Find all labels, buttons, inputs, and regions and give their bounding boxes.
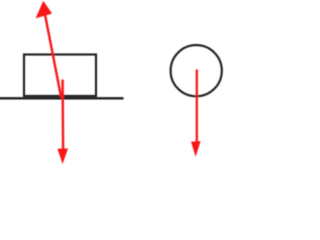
ball (circle)	[171, 45, 222, 96]
weight arrow on block (down)	[57, 80, 68, 165]
weight arrow on ball (down)	[191, 70, 201, 157]
up force arrow on block: shaft	[36, 1, 62, 98]
ground line	[0, 97, 124, 99]
block (box on ground)	[24, 55, 96, 97]
